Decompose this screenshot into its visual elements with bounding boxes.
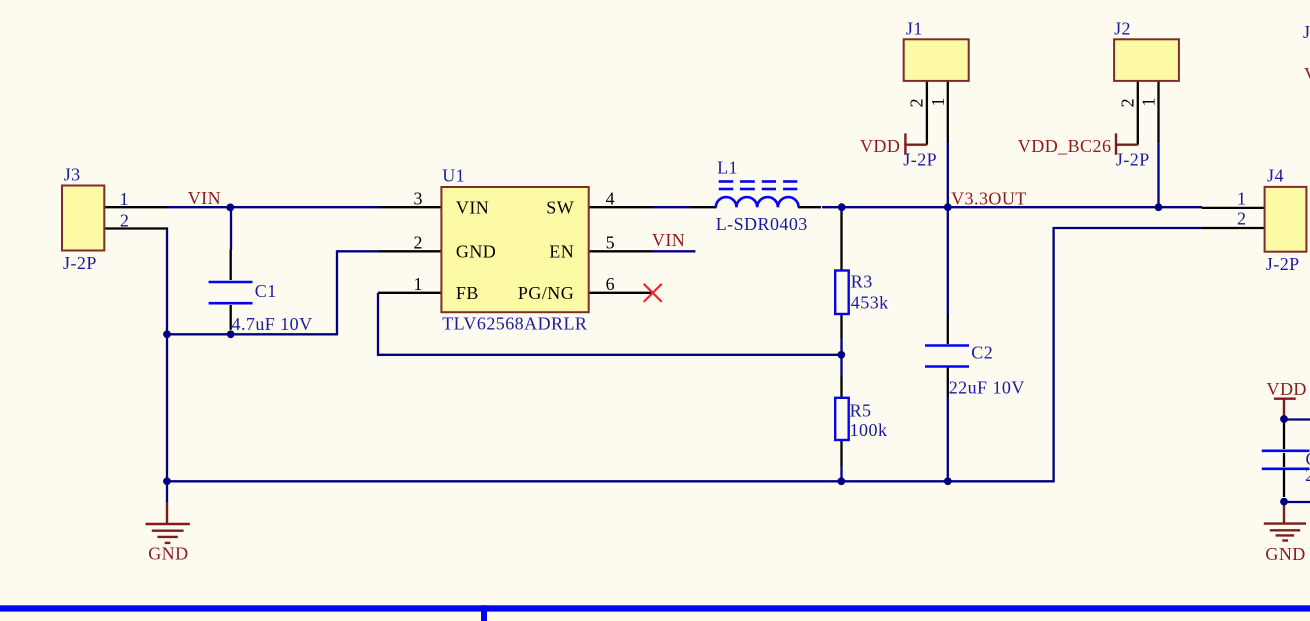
svg-text:J2: J2 (1114, 19, 1131, 39)
svg-text:1: 1 (928, 97, 948, 106)
svg-text:3: 3 (414, 188, 423, 208)
svg-text:VDD_BC26: VDD_BC26 (1018, 136, 1112, 156)
svg-text:FB: FB (456, 283, 479, 303)
svg-text:2: 2 (1117, 98, 1137, 107)
svg-text:453k: 453k (851, 293, 889, 313)
svg-text:1: 1 (414, 274, 423, 294)
svg-text:R3: R3 (851, 272, 873, 292)
svg-text:SW: SW (546, 198, 574, 218)
svg-text:EN: EN (549, 242, 574, 262)
svg-text:5: 5 (606, 233, 615, 253)
svg-text:U1: U1 (442, 166, 465, 186)
svg-text:V: V (1304, 64, 1310, 84)
svg-text:6: 6 (606, 274, 615, 294)
svg-text:2: 2 (1305, 465, 1310, 485)
svg-text:J-2P: J-2P (903, 150, 937, 170)
svg-text:R5: R5 (850, 401, 872, 421)
svg-text:100k: 100k (850, 420, 888, 440)
svg-text:1: 1 (1237, 189, 1246, 209)
svg-text:J4: J4 (1267, 166, 1284, 186)
svg-text:VDD: VDD (860, 136, 900, 156)
svg-text:J-2P: J-2P (1266, 254, 1300, 274)
svg-text:L1: L1 (717, 157, 738, 177)
svg-text:4: 4 (606, 188, 615, 208)
svg-text:2: 2 (120, 210, 129, 230)
svg-text:TLV62568ADRLR: TLV62568ADRLR (442, 314, 587, 334)
svg-text:2: 2 (414, 233, 423, 253)
svg-text:22uF 10V: 22uF 10V (949, 378, 1025, 398)
svg-text:L-SDR0403: L-SDR0403 (716, 214, 808, 234)
svg-text:GND: GND (1265, 544, 1305, 564)
svg-text:VIN: VIN (188, 188, 221, 208)
svg-text:GND: GND (148, 544, 188, 564)
svg-text:1: 1 (120, 189, 129, 209)
svg-text:1: 1 (1138, 97, 1158, 106)
svg-text:J3: J3 (64, 164, 81, 184)
svg-text:J-2P: J-2P (63, 253, 97, 273)
svg-text:C2: C2 (971, 343, 993, 363)
svg-text:J-2P: J-2P (1116, 150, 1150, 170)
svg-text:C1: C1 (255, 281, 277, 301)
svg-text:J1: J1 (906, 19, 923, 39)
svg-text:VDD: VDD (1267, 379, 1307, 399)
svg-text:GND: GND (456, 242, 496, 262)
svg-text:2: 2 (1237, 209, 1246, 229)
svg-text:VIN: VIN (652, 230, 685, 250)
svg-text:2: 2 (907, 98, 927, 107)
svg-text:4.7uF 10V: 4.7uF 10V (232, 314, 313, 334)
svg-text:PG/NG: PG/NG (518, 283, 574, 303)
svg-text:V3.3OUT: V3.3OUT (951, 188, 1027, 208)
svg-text:VIN: VIN (456, 198, 489, 218)
svg-text:J: J (1303, 22, 1310, 42)
